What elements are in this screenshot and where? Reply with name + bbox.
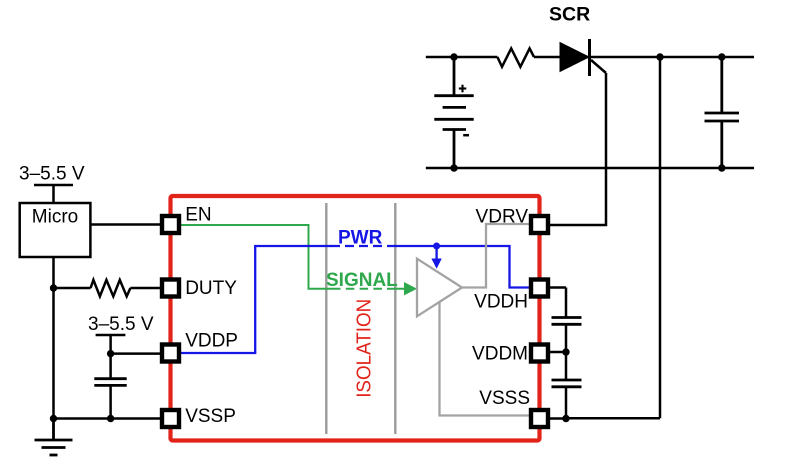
svg-text:SCR: SCR xyxy=(549,4,590,26)
supply rail 3-5.5 V (VDDP) xyxy=(96,335,126,379)
wire bottom rail xyxy=(426,167,754,170)
buffer amplifier (gray triangle) xyxy=(417,259,462,317)
wire right rail vertical xyxy=(659,57,662,418)
wire gray down to VSSS xyxy=(440,302,530,416)
wire Micro to EN xyxy=(90,223,160,226)
arrowhead SIGNAL xyxy=(404,282,417,295)
wire Micro bottom vertical xyxy=(52,257,55,419)
svg-text:VSSS: VSSS xyxy=(479,388,530,409)
pin EN xyxy=(162,216,179,233)
svg-text:3–5.5 V: 3–5.5 V xyxy=(88,314,154,335)
svg-text:VDRV: VDRV xyxy=(476,207,529,228)
battery B1 xyxy=(434,57,473,168)
node junction ground xyxy=(50,415,57,422)
node cap bottom xyxy=(718,164,725,171)
node junction at DUTY branch xyxy=(50,284,57,291)
capacitor C3 (VDDM-VSSS) xyxy=(552,380,582,387)
node junction VDDP xyxy=(107,350,114,357)
wire C1 bottom xyxy=(109,385,112,418)
label battery minus xyxy=(463,134,469,137)
wire gray out to VDRV xyxy=(462,224,530,288)
SCR Q1 (thyristor) xyxy=(560,43,589,72)
pin VDDH xyxy=(531,280,548,297)
capacitor C4 (output) xyxy=(705,57,740,168)
pin VSSP xyxy=(162,410,179,427)
svg-text:VDDH: VDDH xyxy=(474,292,528,313)
SCR gate lead xyxy=(591,60,606,73)
SCR cathode bar xyxy=(588,39,591,76)
wire top rail right xyxy=(590,56,755,59)
node cap top xyxy=(718,53,725,60)
svg-text:EN: EN xyxy=(185,205,211,226)
svg-text:PWR: PWR xyxy=(338,228,383,249)
IC body U1 (red outline) xyxy=(171,196,540,441)
svg-text:ISOLATION: ISOLATION xyxy=(352,299,375,398)
node blue tap xyxy=(433,243,440,250)
svg-text:VDDM: VDDM xyxy=(472,344,528,365)
pin DUTY xyxy=(162,280,179,297)
wire VDDH to cap chain xyxy=(550,286,567,289)
wire VSSS to right rail xyxy=(566,417,660,420)
wire top rail left xyxy=(426,56,498,59)
wire C3 to VSSS xyxy=(565,387,568,419)
svg-text:SIGNAL: SIGNAL xyxy=(326,270,398,291)
isolation barrier line left xyxy=(325,203,327,434)
ground xyxy=(35,419,73,456)
wire VDDM pin to node xyxy=(550,351,567,354)
wire blue tap down xyxy=(435,246,437,260)
wire resistor to SCR xyxy=(534,56,561,59)
resistor R1 (to DUTY) xyxy=(54,280,161,296)
pin VDRV xyxy=(531,216,548,233)
svg-text:3–5.5 V: 3–5.5 V xyxy=(19,164,85,185)
node junction C1 bottom xyxy=(107,415,114,422)
capacitor C2 (VDDH-VDDM) xyxy=(552,318,582,325)
arrowhead blue down xyxy=(431,259,441,269)
pin VDDP xyxy=(162,345,179,362)
pin VDDM xyxy=(531,345,548,362)
svg-text:Micro: Micro xyxy=(32,207,78,228)
wire C2 to VDDM node xyxy=(565,324,568,380)
svg-text:VSSP: VSSP xyxy=(185,406,236,427)
Micro box xyxy=(20,203,91,257)
node SCR output xyxy=(656,53,663,60)
svg-text:DUTY: DUTY xyxy=(185,278,237,299)
wire VDDP junction to pin xyxy=(111,352,160,355)
isolation barrier line right xyxy=(394,203,396,434)
wire SIGNAL green from EN xyxy=(181,225,405,289)
wire VDRV to SCR gate xyxy=(550,73,607,225)
node VSSS xyxy=(562,415,569,422)
svg-text:VDDP: VDDP xyxy=(185,331,238,352)
node VDDM xyxy=(562,348,569,355)
resistor R2 (anode series) xyxy=(497,48,534,66)
wire PWR blue from VDDP xyxy=(181,246,530,353)
wire VSSS pin to node xyxy=(550,417,567,420)
capacitor C1 (VDDP bypass) xyxy=(94,379,126,386)
node battery top xyxy=(450,53,457,60)
label battery plus xyxy=(459,85,467,93)
supply rail 3-5.5 V (top left) xyxy=(34,185,73,203)
wire bottom rail to VSSP xyxy=(54,417,161,420)
pin VSSS xyxy=(531,410,548,427)
node battery bottom xyxy=(450,164,457,171)
